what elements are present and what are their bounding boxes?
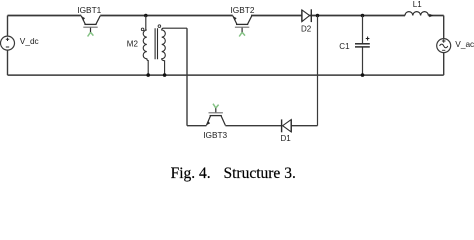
wire top rail: IGBT1 to IGBT2 via M2 tap	[100, 15, 233, 17]
svg-text:IGBT1: IGBT1	[77, 5, 101, 15]
transformer M2 secondary winding	[162, 28, 187, 75]
node: C1 top junction	[361, 14, 365, 18]
capacitor C1	[355, 16, 370, 76]
wire top rail: D2 to L1	[310, 15, 405, 17]
svg-text:L1: L1	[413, 0, 422, 9]
wire top rail: L1 to V_ac corner	[428, 15, 443, 17]
wire V_dc top lead	[7, 16, 9, 37]
node: primary bottom junction	[146, 73, 150, 77]
svg-text:M2: M2	[127, 40, 139, 49]
diode D1	[282, 119, 292, 132]
svg-text:D2: D2	[301, 25, 312, 34]
svg-text:Structure 3.: Structure 3.	[224, 165, 296, 182]
wire lower branch: D1 to riser	[291, 125, 317, 127]
svg-text:IGBT3: IGBT3	[203, 130, 227, 140]
IGBT2	[233, 16, 252, 37]
polarity dot secondary	[158, 25, 161, 28]
svg-text:Fig. 4.: Fig. 4.	[171, 165, 211, 182]
IGBT1	[81, 16, 100, 37]
svg-text:V_ac: V_ac	[455, 39, 474, 49]
svg-text:IGBT2: IGBT2	[231, 5, 255, 15]
wire V_ac top lead	[443, 16, 445, 39]
polarity dot primary	[141, 28, 144, 31]
node: D2 output junction	[316, 14, 320, 18]
node: transformer primary tap	[144, 14, 148, 18]
wire freewheeling branch vertical	[317, 16, 319, 126]
transformer M2 primary winding	[143, 30, 148, 75]
wire primary top lead	[145, 16, 147, 31]
wire bottom rail	[8, 74, 444, 76]
svg-text:C1: C1	[339, 42, 350, 51]
wire lower branch: M2 secondary to IGBT3	[187, 125, 206, 127]
node: secondary bottom junction	[163, 73, 167, 77]
svg-text:V_dc: V_dc	[20, 36, 39, 46]
voltage source V_dc	[1, 36, 15, 50]
wire V_ac bottom lead	[443, 53, 445, 76]
wire V_dc bottom lead	[7, 50, 9, 75]
svg-text:D1: D1	[281, 134, 292, 143]
wire top rail: IGBT2 to D2	[251, 15, 302, 17]
diode D2	[302, 9, 311, 22]
wire lower branch: IGBT3 to D1	[225, 125, 281, 127]
transformer M2 core	[155, 28, 157, 59]
wire secondary drop to lower branch	[186, 28, 188, 126]
wire top rail: V_dc to IGBT1	[8, 15, 82, 17]
inductor L1	[405, 12, 428, 16]
IGBT3	[206, 104, 225, 126]
arrow current direction L1	[429, 14, 433, 18]
voltage source V_ac	[437, 39, 451, 53]
node: C1 bottom junction	[361, 73, 365, 77]
